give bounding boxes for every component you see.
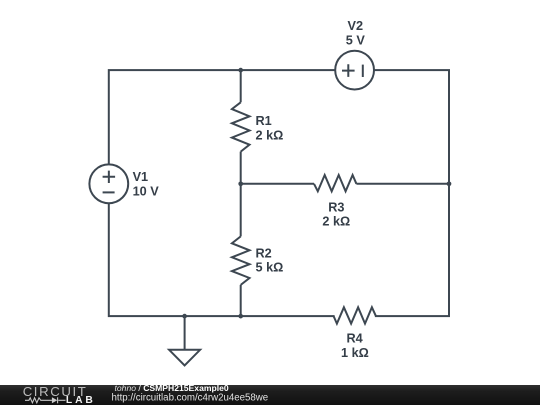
wire middle horizontal left of R3 — [241, 183, 314, 185]
svg-text:1 kΩ: 1 kΩ — [341, 346, 369, 360]
V1 minus sign — [103, 191, 115, 193]
node junction middle left (R1/R2/R3) — [238, 181, 243, 186]
resistor R1 — [232, 102, 250, 151]
svg-text:V2: V2 — [348, 19, 364, 33]
svg-text:R1: R1 — [256, 114, 272, 128]
svg-text:5 V: 5 V — [346, 33, 366, 47]
V1 plus sign — [103, 171, 116, 183]
wire middle horizontal right of R3 — [356, 183, 449, 185]
node junction ground — [182, 314, 187, 319]
node junction top (R1/top wire) — [238, 68, 243, 73]
svg-text:tohno / CSMPH215Example0: tohno / CSMPH215Example0 — [115, 383, 229, 393]
wire R2 bottom lead — [240, 285, 242, 316]
node junction middle right (R3/right wire) — [447, 181, 452, 186]
svg-text:2 kΩ: 2 kΩ — [322, 215, 350, 229]
svg-text:R4: R4 — [346, 332, 362, 346]
svg-text:http://circuitlab.com/c4rw2u4e: http://circuitlab.com/c4rw2u4ee58we — [112, 393, 269, 404]
svg-text:R3: R3 — [328, 201, 344, 215]
resistor R4 (white gap under zigzag) — [335, 315, 375, 318]
logo schematic line — [25, 397, 66, 403]
svg-text:R2: R2 — [256, 247, 272, 261]
voltage source V2 — [335, 51, 374, 90]
node junction bottom (R2/bottom wire) — [238, 314, 243, 319]
resistor R4 — [334, 307, 376, 323]
svg-text:2 kΩ: 2 kΩ — [256, 128, 284, 142]
voltage source V1 — [89, 164, 128, 203]
logo diode triangle — [52, 397, 57, 403]
svg-text:5 kΩ: 5 kΩ — [256, 261, 284, 275]
svg-text:10 V: 10 V — [133, 184, 160, 198]
svg-text:V1: V1 — [133, 170, 149, 184]
ground stem wire — [184, 316, 186, 350]
V2 plus sign — [342, 64, 355, 77]
wire R1 top lead — [240, 70, 242, 102]
wire outer loop (top/left/right/bottom) — [109, 70, 449, 316]
resistor R2 — [232, 236, 250, 285]
V2 minus bar — [362, 65, 364, 77]
wire R2 top lead — [240, 184, 242, 237]
wire R1 bottom lead — [240, 152, 242, 184]
svg-text:LAB: LAB — [66, 395, 96, 405]
resistor R3 — [314, 175, 356, 191]
ground — [169, 350, 200, 366]
